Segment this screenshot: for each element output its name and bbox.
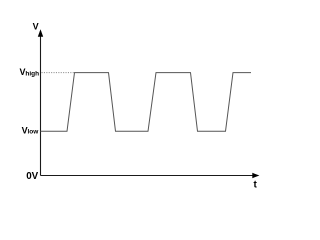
x-axis arrowhead <box>252 173 259 178</box>
svg-text:high: high <box>25 71 39 78</box>
svg-text:low: low <box>28 129 40 136</box>
svg-text:0V: 0V <box>26 171 38 182</box>
y-axis (V axis) <box>40 31 42 176</box>
x-axis (t axis) <box>41 175 254 177</box>
svg-text:V: V <box>33 22 39 32</box>
trapezoidal waveform <box>41 73 252 132</box>
y-axis arrowhead <box>38 29 43 36</box>
dotted reference line at Vhigh <box>42 72 75 74</box>
